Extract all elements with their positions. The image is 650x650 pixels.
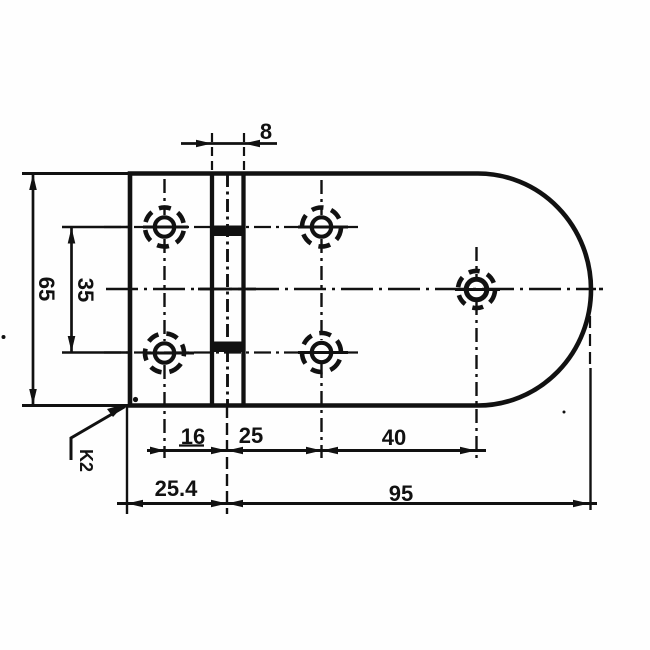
svg-text:25: 25 (239, 423, 263, 448)
K2 leader root blob (107, 404, 125, 417)
hole C centre bar (298, 226, 348, 229)
right end extension upper dashed (589, 316, 591, 366)
svg-text:40: 40 (382, 425, 406, 450)
svg-text:K2: K2 (76, 449, 96, 472)
dimension 65 line (32, 174, 35, 406)
hole D centre bar (298, 351, 348, 354)
right end extension lower solid (589, 368, 591, 510)
hole B dashed circle (137, 326, 192, 381)
hole B centre bar (143, 352, 194, 355)
speck below arc (563, 411, 566, 414)
dimension 8 extension left (211, 133, 213, 170)
speck inside corner (133, 397, 138, 402)
bottom dim row 2 line (117, 502, 597, 505)
hole D ring (312, 343, 331, 362)
centre line end dot (599, 288, 603, 291)
dimension 8 arrow left (196, 140, 212, 148)
svg-text:25.4: 25.4 (155, 476, 199, 501)
pin extension dashed below plate (226, 406, 228, 514)
bottom dim row 1 line (147, 449, 486, 452)
row1 arrow at 164 pointing right (150, 447, 165, 455)
row2 arrow at 589 pointing right (573, 500, 589, 508)
dimension 65 arrow down (29, 389, 37, 405)
svg-text:35: 35 (73, 278, 98, 302)
top edge extension line (left, for 65 dim) (22, 172, 131, 175)
row2 arrows at 227 (211, 500, 243, 508)
hole row centre line lower (104, 351, 358, 353)
hole column centre line E (475, 247, 477, 459)
centre line solid bar at pin (198, 288, 256, 291)
hole A ring (155, 217, 174, 236)
centre line solid bar at hole E (455, 288, 500, 291)
hole A dashed circle (140, 202, 189, 251)
hinge pin line right (241, 174, 245, 406)
dimension 35 arrow up (68, 228, 76, 244)
hole C ring (312, 217, 331, 236)
extension line 35 upper (62, 226, 128, 229)
bottom edge extension line (left, for 65 dim) (22, 404, 129, 407)
speck left edge (2, 335, 6, 339)
hole D dashed circle (295, 326, 348, 379)
hole C dashed circle (300, 206, 342, 248)
row1 arrow at 477 pointing right (460, 447, 476, 455)
row2 arrow at 127 pointing left (127, 500, 143, 508)
hinge plate outline (130, 174, 591, 406)
dimension 16 underline (179, 444, 204, 446)
dimension 8 arrow right (244, 140, 260, 148)
dimension 65 arrow up (29, 174, 37, 190)
hole B ring (155, 343, 174, 362)
svg-text:65: 65 (34, 277, 59, 301)
hole E ring (466, 279, 487, 300)
hinge pin line left (210, 174, 214, 406)
dimension 8 extension right (243, 133, 245, 170)
hole column centre line C/D (320, 180, 322, 458)
hole column centre line A/B (163, 179, 165, 458)
row1 arrows at 227 (211, 447, 243, 455)
knuckle band upper (210, 226, 246, 237)
svg-text:95: 95 (389, 481, 413, 506)
hole row centre line upper (104, 226, 358, 228)
dimension 35 line (70, 227, 73, 353)
knuckle band lower (210, 342, 246, 353)
row1 arrows at 322 (306, 447, 338, 455)
hole A centre bar (143, 226, 188, 229)
svg-text:8: 8 (260, 119, 272, 144)
K2 leader line (71, 407, 125, 461)
pin axis dash-dot line (226, 174, 229, 405)
left edge extension below plate (126, 407, 128, 514)
hole E dashed circle (455, 268, 498, 311)
dimension 8 line (181, 142, 277, 145)
main horizontal centre line (106, 288, 596, 291)
extension line 35 lower (62, 351, 128, 354)
dimension 35 arrow down (68, 336, 76, 352)
